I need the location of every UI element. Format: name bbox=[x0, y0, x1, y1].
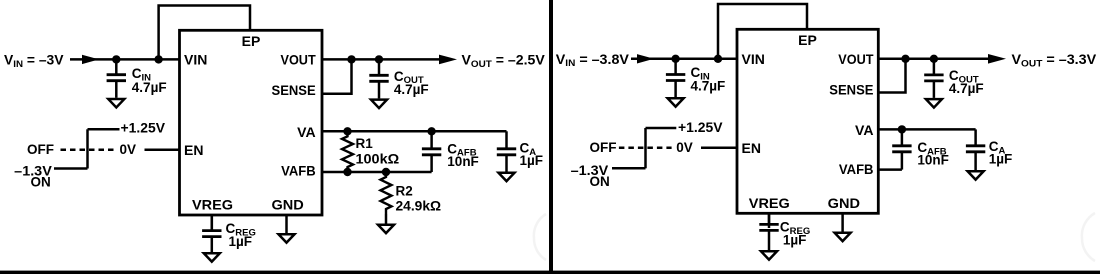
label CA (left) bbox=[520, 141, 537, 158]
ground below CA (left) bbox=[499, 173, 515, 181]
label +1.25V (left) bbox=[121, 121, 166, 136]
wire: 0V to EN pin (right) bbox=[701, 147, 737, 150]
svg-text:10nF: 10nF bbox=[917, 153, 949, 168]
svg-text:GND: GND bbox=[828, 195, 860, 211]
ground below R2 (left) bbox=[378, 225, 394, 233]
svg-text:VOUT: VOUT bbox=[838, 51, 874, 67]
label R1 (left) bbox=[356, 136, 374, 151]
pin label EP (right) bbox=[798, 32, 817, 48]
wire: EN waveform low level (right) bbox=[612, 167, 646, 170]
wire: VA net (left) bbox=[322, 130, 507, 133]
label OFF (right) bbox=[590, 140, 617, 155]
resistor R1 (left) bbox=[342, 131, 353, 172]
wire: GND pin (left) bbox=[285, 215, 288, 233]
wire: R2 to ground (left) bbox=[385, 214, 388, 224]
IC regulator block (left) bbox=[180, 30, 323, 215]
ground below COUT (right) bbox=[926, 99, 942, 107]
svg-text:EN: EN bbox=[742, 140, 761, 156]
svg-text:1µF: 1µF bbox=[989, 151, 1013, 166]
node: CIN junction (left) bbox=[112, 55, 120, 63]
capacitor CREG (left) bbox=[202, 215, 221, 252]
wire: 0V to EN pin (left) bbox=[145, 149, 180, 152]
wire: VOUT to output (right) bbox=[878, 58, 989, 61]
resistor R2 (left) bbox=[381, 172, 392, 214]
svg-text:10nF: 10nF bbox=[447, 154, 479, 169]
svg-text:R1: R1 bbox=[356, 136, 374, 151]
svg-text:0V: 0V bbox=[120, 142, 137, 157]
label CREG (right) bbox=[780, 220, 810, 237]
label ON (right) bbox=[590, 174, 610, 189]
node: VA-R1 junction (left) bbox=[343, 127, 351, 135]
node: COUT junction (left) bbox=[375, 55, 383, 63]
svg-text:VAFB: VAFB bbox=[281, 163, 316, 179]
pin label EN (left) bbox=[184, 142, 203, 158]
input arrow (left) bbox=[82, 55, 99, 64]
capacitor CA (right) bbox=[966, 129, 985, 170]
pin label SENSE (left) bbox=[272, 82, 316, 98]
wire: VAFB net (left) bbox=[322, 171, 432, 174]
svg-text:VIN: VIN bbox=[184, 52, 207, 68]
wire: VAFB net (right) bbox=[878, 168, 902, 171]
input arrow (right) bbox=[637, 54, 654, 63]
ground below CREG (left) bbox=[204, 253, 220, 261]
wire: input to VIN pin (left) bbox=[70, 58, 180, 61]
node: VA-CAFB junction (right) bbox=[898, 125, 906, 133]
node: COUT junction (right) bbox=[930, 55, 938, 63]
label 1uF for CREG (left) bbox=[229, 234, 253, 249]
ground below GND pin (left) bbox=[279, 234, 295, 242]
wire: input to VIN pin (right) bbox=[631, 58, 737, 61]
label ON (left) bbox=[31, 174, 51, 189]
pin label EN (right) bbox=[742, 140, 761, 156]
label CAFB (left) bbox=[447, 141, 476, 158]
pin label SENSE (right) bbox=[829, 81, 873, 97]
node: VAFB-R2 junction (left) bbox=[382, 168, 390, 176]
label 1uF for CREG (right) bbox=[783, 233, 807, 248]
label R2 (left) bbox=[396, 183, 413, 198]
output arrow (left) bbox=[439, 55, 457, 65]
ground below COUT (left) bbox=[371, 100, 387, 108]
svg-text:ON: ON bbox=[590, 174, 610, 189]
svg-text:SENSE: SENSE bbox=[829, 81, 873, 97]
svg-text:EP: EP bbox=[798, 32, 817, 48]
pin label GND (left) bbox=[272, 196, 304, 212]
ground below CA (right) bbox=[968, 171, 984, 179]
label OFF (left) bbox=[27, 142, 54, 157]
pin label VOUT (right) bbox=[838, 51, 874, 67]
node: EP loop junction (left) bbox=[154, 55, 162, 63]
faint watermark arc (bottom right corner) bbox=[1082, 213, 1095, 261]
svg-text:VIN: VIN bbox=[742, 51, 765, 67]
ground below CREG (right) bbox=[761, 251, 777, 259]
label 1uF for CA (left) bbox=[520, 153, 544, 168]
pin label VAFB (right) bbox=[839, 161, 874, 177]
ground below CIN (right) bbox=[668, 98, 684, 106]
ground below GND pin (right) bbox=[835, 233, 851, 241]
svg-text:1µF: 1µF bbox=[229, 234, 253, 249]
label 10nF for CAFB (right) bbox=[917, 153, 949, 168]
bottom border bar bbox=[0, 271, 1100, 274]
pin label VIN (left) bbox=[184, 52, 207, 68]
label 0V (right) bbox=[676, 140, 693, 155]
pin label VREG (right) bbox=[749, 195, 790, 211]
pin label GND (right) bbox=[828, 195, 860, 211]
label VOUT = -2.5V (left) bbox=[462, 53, 545, 70]
label 0V (left) bbox=[120, 142, 137, 157]
node: VAFB-R1 junction (left) bbox=[343, 168, 351, 176]
label 10nF for CAFB (left) bbox=[447, 154, 479, 169]
label 4.7uF for COUT (right) bbox=[949, 81, 984, 96]
wire: dashed 0V level (left) bbox=[61, 149, 116, 152]
output arrow (right) bbox=[988, 54, 1006, 64]
svg-text:4.7µF: 4.7µF bbox=[691, 79, 726, 94]
pin label VIN (right) bbox=[742, 51, 765, 67]
svg-text:VREG: VREG bbox=[749, 195, 790, 211]
pin label EP (left) bbox=[242, 33, 261, 49]
pin label VA (left) bbox=[297, 124, 316, 140]
node: VA-CAFB junction (left) bbox=[427, 127, 435, 135]
svg-text:OFF: OFF bbox=[27, 142, 54, 157]
label VIN = -3V (left) bbox=[4, 53, 64, 70]
node: CIN junction (right) bbox=[671, 55, 679, 63]
node: EP loop junction (right) bbox=[714, 55, 722, 63]
pin label VREG (left) bbox=[192, 196, 233, 212]
label COUT (left) bbox=[394, 69, 424, 86]
ground below CIN (left) bbox=[108, 99, 124, 107]
capacitor COUT (right) bbox=[924, 59, 943, 98]
svg-text:OFF: OFF bbox=[590, 140, 617, 155]
label 4.7uF for CIN (right) bbox=[691, 79, 726, 94]
svg-text:0V: 0V bbox=[676, 140, 693, 155]
label VOUT = -3.3V (right) bbox=[1012, 52, 1097, 69]
wire: EN waveform high level (left) bbox=[88, 128, 120, 131]
svg-text:EP: EP bbox=[242, 33, 261, 49]
svg-text:SENSE: SENSE bbox=[272, 82, 316, 98]
pin label VAFB (left) bbox=[281, 163, 316, 179]
wire: SENSE loop (right) bbox=[878, 59, 905, 93]
capacitor CAFB (right) bbox=[892, 129, 911, 169]
capacitor COUT (left) bbox=[369, 59, 388, 98]
label 1uF for CA (right) bbox=[989, 151, 1013, 166]
wire: GND pin (right) bbox=[841, 213, 844, 231]
wire: VOUT to output (left) bbox=[322, 58, 441, 61]
svg-text:GND: GND bbox=[272, 196, 304, 212]
svg-text:24.9kΩ: 24.9kΩ bbox=[396, 198, 442, 213]
label -1.3V (right) bbox=[571, 163, 609, 178]
label COUT (right) bbox=[949, 68, 979, 85]
svg-text:VAFB: VAFB bbox=[839, 161, 874, 177]
capacitor CREG (right) bbox=[759, 213, 778, 250]
pin label VOUT (left) bbox=[281, 52, 317, 68]
label CREG (left) bbox=[226, 221, 256, 238]
svg-text:VREG: VREG bbox=[192, 196, 233, 212]
label 4.7uF for CIN (left) bbox=[132, 80, 167, 95]
wire: VA net (right) bbox=[878, 128, 975, 131]
label CIN (left) bbox=[132, 66, 151, 83]
wire: EN waveform low level (left) bbox=[54, 167, 88, 170]
svg-text:+1.25V: +1.25V bbox=[678, 120, 723, 135]
label CAFB (right) bbox=[917, 140, 946, 157]
wire: dashed 0V level (right) bbox=[619, 147, 672, 150]
svg-text:100kΩ: 100kΩ bbox=[356, 151, 400, 166]
svg-text:VOUT: VOUT bbox=[281, 52, 317, 68]
label CA (right) bbox=[989, 139, 1006, 156]
IC regulator block (right) bbox=[737, 29, 878, 213]
node: SENSE junction (left) bbox=[347, 55, 355, 63]
wire: EP loop (right) bbox=[718, 4, 807, 59]
svg-text:VA: VA bbox=[297, 124, 316, 140]
wire: EN waveform high level (right) bbox=[646, 127, 677, 130]
wire: VREG pin (right) bbox=[768, 213, 771, 228]
svg-text:ON: ON bbox=[31, 174, 51, 189]
svg-text:1µF: 1µF bbox=[520, 153, 544, 168]
svg-text:R2: R2 bbox=[396, 183, 413, 198]
faint watermark arc (left of divider) bbox=[534, 214, 546, 260]
capacitor CIN (left) bbox=[107, 59, 126, 97]
capacitor CAFB (left) bbox=[422, 131, 441, 172]
svg-text:4.7µF: 4.7µF bbox=[394, 82, 429, 97]
capacitor CIN (right) bbox=[666, 59, 685, 97]
label CIN (right) bbox=[691, 65, 710, 82]
svg-text:4.7µF: 4.7µF bbox=[132, 80, 167, 95]
label VIN = -3.8V (right) bbox=[556, 52, 629, 69]
wire: SENSE loop (left) bbox=[322, 59, 352, 93]
label 100kOhm (left) bbox=[356, 151, 400, 166]
svg-text:1µF: 1µF bbox=[783, 233, 807, 248]
wire: EP loop (left) bbox=[159, 6, 250, 60]
svg-text:VA: VA bbox=[855, 122, 874, 138]
svg-text:VIN = –3V: VIN = –3V bbox=[4, 53, 64, 70]
capacitor CA (left) bbox=[497, 131, 516, 171]
label 4.7uF for COUT (left) bbox=[394, 82, 429, 97]
wire: EN waveform step edge (right) bbox=[644, 128, 647, 168]
label 24.9kOhm (left) bbox=[396, 198, 442, 213]
label -1.3V (left) bbox=[14, 163, 52, 178]
label +1.25V (right) bbox=[678, 120, 723, 135]
svg-text:4.7µF: 4.7µF bbox=[949, 81, 984, 96]
svg-text:EN: EN bbox=[184, 142, 203, 158]
vertical divider line bbox=[549, 0, 553, 274]
wire: EN waveform step edge (left) bbox=[86, 129, 89, 168]
pin label VA (right) bbox=[855, 122, 874, 138]
svg-text:+1.25V: +1.25V bbox=[121, 121, 166, 136]
node: SENSE junction (right) bbox=[901, 55, 909, 63]
wire: VREG pin (left) bbox=[211, 215, 214, 230]
